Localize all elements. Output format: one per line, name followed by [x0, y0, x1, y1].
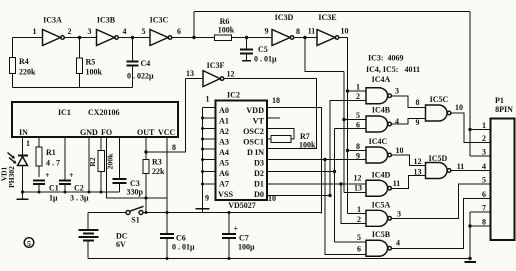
svg-text:IC3B: IC3B: [97, 16, 116, 25]
node dot at OUT branch: [144, 150, 147, 153]
svg-text:+: +: [234, 225, 239, 234]
wire P1 pin1: [470, 129, 491, 131]
node dot IC3D out branch: [303, 36, 306, 39]
wire IC4C out to IC5D pin12: [392, 155, 426, 166]
wire P1 pin8: [470, 225, 491, 227]
resistor R5: [79, 38, 81, 59]
wire ground rail: [88, 258, 470, 260]
wire oscillator common bottom: [13, 87, 133, 89]
resistor R4: [12, 38, 14, 58]
connector P1 8PIN box: [491, 119, 515, 241]
wire IC4A out to IC5C pin8: [392, 96, 426, 108]
svg-text:5: 5: [27, 239, 31, 248]
wire IC3D out to IC3E in: [294, 37, 317, 39]
svg-text:A2: A2: [219, 127, 229, 136]
wire R6 to IC3D in: [232, 37, 273, 39]
svg-text:D1: D1: [254, 180, 264, 189]
svg-text:R2: R2: [88, 157, 97, 166]
wire ground riser pins 7,8: [469, 212, 471, 259]
svg-text:8: 8: [296, 27, 300, 36]
svg-text:OUT: OUT: [137, 128, 155, 137]
svg-text:IC5A: IC5A: [372, 201, 391, 210]
svg-text:IC5D: IC5D: [429, 154, 448, 163]
nand gate IC5D: [426, 163, 448, 179]
node dot carrier to IC4C pin8: [346, 149, 349, 152]
nand gate IC5C: [426, 105, 448, 121]
wire A0-A7 stubs to address bus: [203, 108, 216, 185]
wire IC5A out to P1 pin5: [392, 184, 491, 218]
svg-text:100k: 100k: [218, 26, 235, 35]
wire P1 pin3: [470, 155, 491, 157]
ground bar at rail end: [465, 261, 477, 263]
svg-text:2: 2: [482, 134, 486, 143]
svg-text:3: 3: [88, 27, 92, 36]
node dots on ground rail: [166, 257, 169, 260]
svg-text:100μ: 100μ: [238, 243, 255, 252]
node dot R5 tap: [78, 36, 81, 39]
wire IC4D out to IC5D pin13: [392, 176, 426, 189]
svg-text:R3: R3: [152, 158, 162, 167]
svg-text:OSC2: OSC2: [243, 127, 264, 136]
svg-text:C1: C1: [49, 184, 59, 193]
svg-text:R1: R1: [46, 148, 56, 157]
wire IC5D out to P1 pin4: [451, 170, 490, 172]
svg-text:330p: 330p: [127, 188, 144, 197]
svg-text:8: 8: [416, 98, 420, 107]
svg-text:1: 1: [356, 83, 360, 92]
svg-text:R4: R4: [19, 57, 29, 66]
wire IC3C out to R6: [172, 37, 215, 39]
wire carrier E stubs: [348, 91, 367, 213]
svg-text:D0: D0: [254, 190, 264, 199]
svg-text:10: 10: [341, 27, 349, 36]
svg-text:IC1: IC1: [58, 108, 71, 117]
svg-text:6: 6: [177, 27, 181, 36]
svg-text:5: 5: [142, 27, 146, 36]
svg-text:C5: C5: [258, 45, 268, 54]
svg-text:0 . 01μ: 0 . 01μ: [254, 55, 277, 64]
svg-text:4 . 7: 4 . 7: [46, 159, 60, 168]
node dot carrier rail tap: [192, 36, 195, 39]
wire P1 pin7: [470, 211, 491, 213]
capacitor C2 polar: [64, 137, 66, 181]
svg-text:IC4C: IC4C: [369, 137, 388, 146]
svg-text:IC3A: IC3A: [43, 16, 62, 25]
wire +V rail right of S1: [143, 212, 322, 214]
inverter IC3C: [150, 30, 168, 46]
capacitor C4: [132, 38, 134, 62]
wire top rail: [194, 11, 470, 13]
svg-text:+: +: [45, 171, 50, 180]
wire carrier D to IC4D.13 stub: [344, 192, 366, 194]
svg-text:VCC: VCC: [158, 128, 176, 137]
wire IC3B out to IC3C in: [119, 37, 151, 39]
svg-text:6: 6: [482, 190, 486, 199]
svg-text:IC4B: IC4B: [372, 106, 391, 115]
svg-text:IC5B: IC5B: [372, 230, 391, 239]
svg-text:4: 4: [396, 239, 400, 248]
svg-text:VT: VT: [253, 117, 265, 126]
wire IC3F out to D IN riser: [224, 79, 317, 149]
svg-text:9: 9: [356, 152, 360, 161]
wire +V rail left of S1: [88, 212, 126, 214]
svg-text:3 . 3μ: 3 . 3μ: [70, 194, 89, 203]
svg-text:3: 3: [482, 148, 486, 157]
wire D2 row: [267, 171, 335, 173]
svg-text:IC4D: IC4D: [372, 171, 391, 180]
node dot C5 tap: [245, 36, 248, 39]
resistor R7: [267, 138, 271, 140]
resistor R1: [38, 137, 40, 147]
VD1 light arrows: [8, 153, 15, 162]
circled figure number 5: [24, 238, 34, 248]
svg-text:13: 13: [186, 69, 194, 78]
wire VT stub: [267, 117, 280, 119]
svg-text:IC3C: IC3C: [150, 16, 169, 25]
battery DC 6V: [87, 213, 89, 231]
svg-text:IC3E: IC3E: [318, 13, 336, 22]
node dots on bus: [38, 191, 41, 194]
wire D3 row to IC4C pin9: [267, 159, 366, 161]
ground bar at VSS: [196, 208, 210, 210]
node dot carrier to IC4A pin1: [346, 89, 349, 92]
svg-text:3: 3: [397, 210, 401, 219]
svg-text:A3: A3: [219, 138, 229, 147]
svg-text:8PIN: 8PIN: [495, 105, 513, 114]
wire carrier D vertical: [343, 72, 345, 193]
svg-text:100k: 100k: [299, 141, 316, 150]
svg-text:1: 1: [26, 139, 30, 148]
svg-text:A5: A5: [219, 159, 229, 168]
svg-text:4: 4: [395, 117, 399, 126]
svg-text:IC4A: IC4A: [372, 75, 391, 84]
svg-text:1: 1: [33, 27, 37, 36]
wire carrier branch down and right: [305, 38, 344, 72]
svg-text:11: 11: [308, 27, 316, 36]
nand gate IC5B: [366, 240, 388, 256]
svg-text:12: 12: [414, 157, 422, 166]
svg-text:10: 10: [396, 146, 404, 155]
svg-text:A6: A6: [219, 169, 229, 178]
svg-text:4: 4: [123, 27, 127, 36]
svg-text:IC4, IC5: 4011: IC4, IC5: 4011: [366, 65, 420, 74]
svg-text:6: 6: [356, 121, 360, 130]
node dot VT-D3 join: [323, 158, 326, 161]
svg-text:A1: A1: [219, 117, 229, 126]
wire D1 row to IC4D pin13: [267, 183, 366, 185]
svg-text:IN: IN: [19, 128, 28, 137]
svg-text:5: 5: [357, 233, 361, 242]
svg-text:VD5027: VD5027: [228, 201, 256, 210]
svg-text:13: 13: [414, 168, 422, 177]
svg-text:6V: 6V: [116, 240, 126, 249]
svg-text:C4: C4: [141, 59, 151, 68]
nand gate IC4D: [366, 180, 388, 196]
wire IC3F input riser: [146, 79, 186, 152]
svg-text:C6: C6: [176, 234, 186, 243]
svg-text:IC3F: IC3F: [207, 61, 225, 70]
svg-text:12: 12: [227, 70, 235, 79]
svg-text:PH302: PH302: [7, 166, 16, 188]
svg-text:VDD: VDD: [246, 106, 264, 115]
svg-text:C2: C2: [74, 184, 84, 193]
wire D3 branch to IC5B pin6: [325, 160, 366, 255]
wire VDD pin 18 to +rail: [267, 108, 322, 214]
svg-text:2: 2: [356, 92, 360, 101]
svg-text:100k: 100k: [86, 68, 103, 77]
wire D0 vertical to IC4A.2: [330, 101, 366, 196]
svg-text:5: 5: [482, 176, 486, 185]
svg-text:13: 13: [354, 184, 362, 193]
svg-text:10: 10: [455, 103, 463, 112]
wire IC5B out to P1 pin6: [392, 199, 491, 249]
svg-text:IC3: 4069: IC3: 4069: [368, 54, 404, 63]
inverter IC3E: [317, 30, 335, 46]
svg-text:GND: GND: [80, 128, 98, 137]
svg-text:3: 3: [395, 87, 399, 96]
svg-text:OSC1: OSC1: [243, 138, 264, 147]
photodiode VD1: [22, 137, 24, 155]
svg-text:IC3D: IC3D: [275, 13, 294, 22]
wire address bus / VSS riser: [202, 108, 204, 213]
svg-text:S1: S1: [131, 216, 139, 225]
node dots on address bus: [201, 117, 204, 120]
inverter IC3B: [97, 30, 115, 46]
svg-text:6: 6: [357, 245, 361, 254]
svg-text:0 . 01μ: 0 . 01μ: [172, 243, 195, 252]
wire signal ground bus: [22, 191, 120, 193]
inverter IC3A: [43, 30, 61, 46]
svg-text:FO: FO: [101, 128, 112, 137]
wire VCC pin 8 drop: [166, 137, 168, 213]
wire OSC2 loop: [267, 129, 294, 140]
svg-text:9: 9: [416, 118, 420, 127]
svg-text:C7: C7: [239, 234, 249, 243]
svg-text:8: 8: [356, 142, 360, 151]
svg-text:9: 9: [265, 27, 269, 36]
svg-text:P1: P1: [495, 96, 504, 105]
svg-text:D IN: D IN: [247, 148, 264, 157]
capacitor C6: [166, 213, 168, 235]
wire OUT pin drop: [145, 137, 147, 160]
svg-text:1: 1: [206, 95, 210, 104]
wire carrier E vertical: [347, 38, 349, 214]
svg-text:A7: A7: [219, 180, 229, 189]
svg-text:8: 8: [172, 143, 176, 152]
svg-text:IC5C: IC5C: [430, 95, 449, 104]
switch S1: [126, 211, 130, 215]
svg-text:22k: 22k: [152, 167, 165, 176]
svg-text:2: 2: [68, 27, 72, 36]
svg-text:A4: A4: [219, 148, 229, 157]
wire top rail drop to pins 1,3: [469, 12, 471, 157]
wire FO pin drop and branch: [107, 137, 168, 198]
svg-text:8: 8: [482, 218, 486, 227]
IC1 CX20106 box: [12, 102, 178, 137]
nand gate IC5A: [366, 210, 388, 226]
resistor R6: [215, 35, 232, 41]
wire IC3E out: [339, 37, 348, 39]
svg-text:1μ: 1μ: [49, 194, 58, 203]
svg-text:4: 4: [482, 162, 486, 171]
svg-text:0 . 022μ: 0 . 022μ: [127, 72, 154, 81]
IC2 VD5027 box: [216, 101, 268, 201]
svg-text:11: 11: [457, 162, 465, 171]
resistor R3: [143, 160, 149, 174]
node dot carrier to IC4B pin5: [342, 118, 345, 121]
svg-text:VSS: VSS: [218, 190, 233, 199]
svg-text:R5: R5: [86, 58, 96, 67]
capacitor C3: [119, 137, 121, 179]
wire IC4B out to IC5C pin9: [392, 119, 426, 125]
svg-text:7: 7: [482, 204, 486, 213]
svg-text:2: 2: [357, 215, 361, 224]
capacitor C5: [246, 38, 248, 50]
wire D1 branch to IC5A.2: [341, 184, 366, 223]
svg-text:11: 11: [393, 179, 401, 188]
capacitor C7 polar: [228, 213, 230, 235]
wire riser to top rail: [193, 12, 195, 38]
svg-text:CX20106: CX20106: [88, 108, 120, 117]
wire D0 row: [267, 195, 330, 197]
svg-text:1: 1: [482, 121, 486, 130]
svg-text:1: 1: [357, 205, 361, 214]
wire IC5C out to P1 pin2: [451, 113, 490, 143]
node dots on +V rail: [145, 211, 148, 214]
nand gate IC4B: [366, 116, 388, 132]
wire input node to IC3A pin 1: [13, 37, 43, 39]
svg-text:D2: D2: [254, 169, 264, 178]
svg-text:+: +: [69, 171, 74, 180]
svg-text:9: 9: [205, 194, 209, 203]
svg-text:IC2: IC2: [227, 91, 240, 100]
svg-text:5: 5: [356, 111, 360, 120]
resistor R2: [100, 137, 102, 151]
svg-text:220k: 220k: [19, 68, 36, 77]
wire GND pin drop: [88, 137, 90, 192]
svg-text:18: 18: [272, 96, 280, 105]
wire IC3A out to IC3B in: [65, 37, 97, 39]
node dot C4 tap: [131, 36, 134, 39]
nand gate IC4A: [366, 88, 388, 104]
svg-text:12: 12: [354, 174, 362, 183]
wire carrier D to IC4B.5 stub: [344, 119, 366, 121]
svg-text:D3: D3: [254, 159, 264, 168]
nand gate IC4C: [366, 147, 388, 163]
bus end bar: [17, 198, 29, 200]
wire D2 vertical IC4B.6 to IC5B.5: [335, 129, 367, 243]
ground bar under C5: [242, 60, 251, 62]
svg-text:A0: A0: [219, 106, 229, 115]
